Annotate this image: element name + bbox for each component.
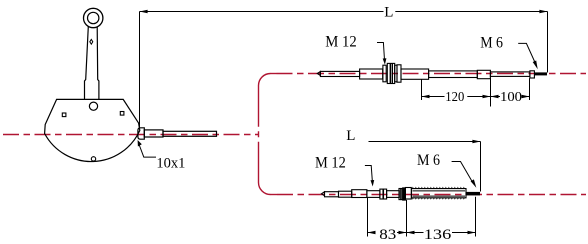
svg-text:120: 120 [445,90,464,105]
svg-text:136: 136 [424,227,452,243]
svg-text:100: 100 [500,90,522,105]
svg-text:L: L [384,4,393,20]
svg-text:L: L [346,128,355,144]
svg-text:83: 83 [379,227,396,243]
svg-text:M 12: M 12 [315,155,346,172]
svg-text:M 6: M 6 [417,152,440,169]
svg-text:M 12: M 12 [325,33,357,50]
svg-text:M 6: M 6 [480,34,503,51]
svg-text:10x1: 10x1 [156,155,185,171]
